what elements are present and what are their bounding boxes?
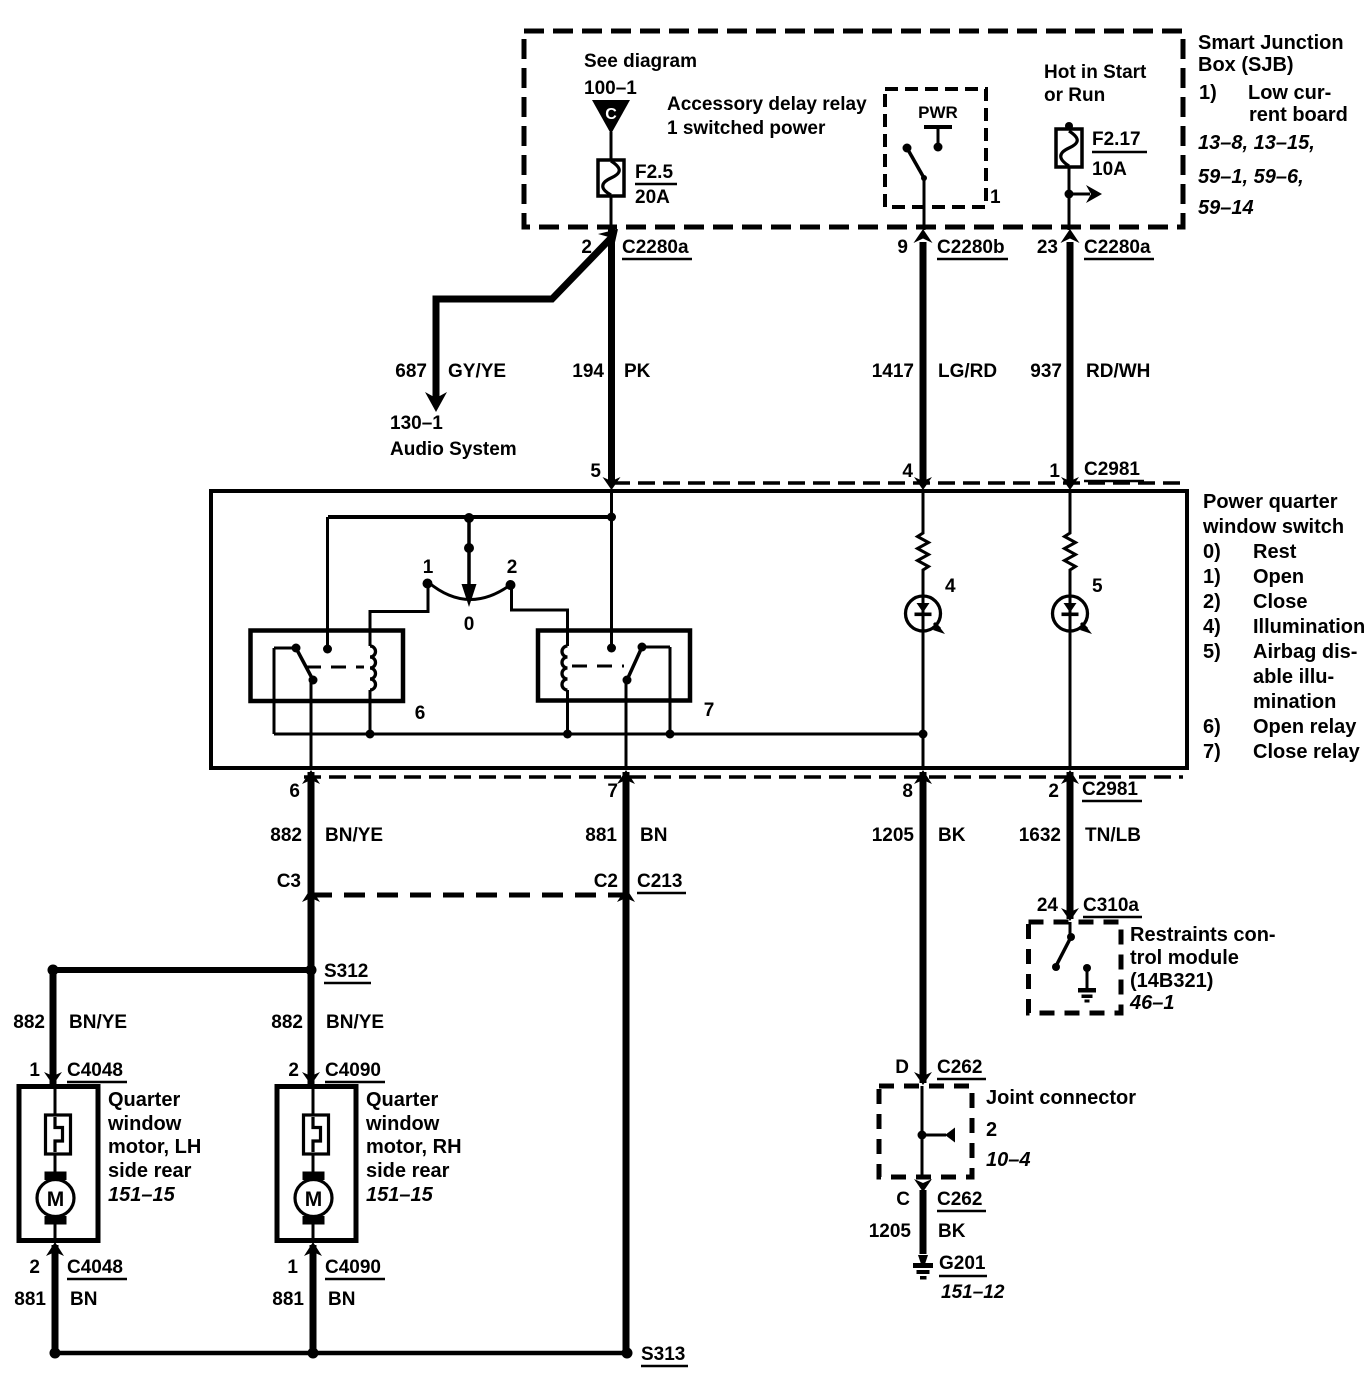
wire LED5 to pin 2 — [1069, 630, 1072, 768]
svg-text:BN/YE: BN/YE — [325, 825, 383, 846]
wire pin5 down inside box to relay 7 contact — [610, 491, 613, 648]
power quarter window switch box — [211, 491, 1187, 768]
svg-text:TN/LB: TN/LB — [1085, 825, 1141, 846]
relay 6 output to pin 6 — [310, 680, 313, 768]
relay 6 coil lead to bottom bus — [369, 690, 372, 734]
label 937 RD/WH — [1030, 361, 1150, 382]
SJB title text — [1198, 32, 1348, 219]
svg-text:Accessory delay relay: Accessory delay relay — [667, 94, 867, 115]
svg-text:1632: 1632 — [1019, 825, 1061, 846]
svg-text:Audio System: Audio System — [390, 439, 517, 460]
pin 2 C4090 entry — [288, 1060, 385, 1085]
svg-text:rent board: rent board — [1249, 104, 1348, 126]
relay 6 (open relay) box — [251, 631, 404, 702]
illumination resistor (4) — [918, 491, 929, 597]
svg-text:BK: BK — [938, 825, 966, 846]
svg-text:1: 1 — [423, 557, 434, 578]
rocker arc — [428, 582, 512, 600]
svg-text:46–1: 46–1 — [1129, 992, 1175, 1014]
svg-text:able illu-: able illu- — [1253, 666, 1334, 688]
svg-text:F2.17: F2.17 — [1092, 129, 1141, 150]
wire PWR to SJB border — [923, 178, 926, 230]
svg-text:Joint connector: Joint connector — [986, 1087, 1136, 1109]
label 1417 LG/RD — [872, 361, 997, 382]
svg-text:window switch: window switch — [1202, 516, 1344, 538]
svg-text:937: 937 — [1030, 361, 1062, 382]
svg-text:BN: BN — [328, 1289, 355, 1310]
svg-text:1: 1 — [287, 1257, 298, 1278]
svg-text:C2280a: C2280a — [622, 237, 689, 258]
svg-text:(14B321): (14B321) — [1130, 970, 1213, 992]
pin 1 C4090 exit — [287, 1242, 385, 1279]
relay 7 contact terminal — [607, 644, 616, 653]
svg-text:130–1: 130–1 — [390, 413, 443, 434]
svg-text:Close relay: Close relay — [1253, 741, 1361, 763]
svg-text:0): 0) — [1203, 541, 1221, 563]
svg-text:20A: 20A — [635, 187, 670, 208]
pin 9 C2280b connector label — [897, 229, 1008, 259]
svg-text:10A: 10A — [1092, 159, 1127, 180]
relay 6 pivot lead down — [273, 648, 276, 734]
RH motor internal wire bottom — [312, 1223, 315, 1241]
svg-text:C213: C213 — [637, 871, 682, 892]
ground G201 — [913, 1253, 1005, 1303]
LH circuit breaker — [46, 1115, 71, 1154]
svg-text:mination: mination — [1253, 691, 1336, 713]
joint connector internal bus — [918, 1086, 956, 1177]
svg-text:881: 881 — [585, 825, 617, 846]
relay 7 armature — [627, 647, 642, 680]
svg-text:5): 5) — [1203, 641, 1221, 663]
svg-text:C: C — [896, 1189, 910, 1210]
internal bottom bus wire — [274, 733, 923, 736]
svg-text:881: 881 — [272, 1289, 304, 1310]
svg-text:194: 194 — [572, 361, 604, 382]
pin 24 C310a entry — [1037, 895, 1142, 921]
svg-text:7: 7 — [704, 700, 715, 721]
wire 881 BN RH down — [310, 1245, 317, 1353]
wire 882 BN/YE left branch — [50, 970, 57, 1085]
svg-text:1: 1 — [990, 187, 1001, 208]
relay 6 common pivot and stub — [274, 647, 296, 650]
Smart Junction Box (SJB) dashed enclosure — [524, 31, 1183, 227]
label 194 PK — [572, 361, 650, 382]
pin 1 C2981 entry arrow — [1049, 459, 1144, 490]
svg-text:1205: 1205 — [872, 825, 915, 846]
svg-text:882: 882 — [270, 825, 302, 846]
svg-text:G201: G201 — [939, 1253, 986, 1274]
pin 2 C2280a connector label — [581, 229, 692, 259]
svg-text:C310a: C310a — [1083, 895, 1139, 916]
svg-text:or Run: or Run — [1044, 85, 1105, 106]
svg-text:Rest: Rest — [1253, 541, 1297, 563]
svg-text:882: 882 — [271, 1012, 303, 1033]
svg-text:S312: S312 — [324, 961, 368, 982]
wire 194 PK vertical (SJB to switch pin 5) — [608, 228, 615, 482]
svg-text:C4048: C4048 — [67, 1257, 123, 1278]
svg-text:4: 4 — [902, 461, 913, 482]
PWR switch dashed box — [885, 89, 986, 207]
svg-text:4: 4 — [945, 576, 956, 597]
svg-text:1): 1) — [1199, 82, 1217, 104]
wire 1205 BK (pin 8 down) — [920, 772, 927, 1083]
svg-text:59–1, 59–6,: 59–1, 59–6, — [1198, 166, 1304, 188]
LH motor internal wire middle — [54, 1153, 57, 1174]
quarter window motor LH box — [19, 1087, 98, 1241]
svg-text:F2.5: F2.5 — [635, 162, 673, 183]
svg-text:24: 24 — [1037, 895, 1059, 916]
LH motor internal wire bottom — [54, 1223, 57, 1241]
svg-text:C2981: C2981 — [1082, 779, 1138, 800]
relay 7 (close relay) box — [538, 631, 690, 701]
rocker wiper arrow — [462, 517, 477, 607]
svg-text:C2981: C2981 — [1084, 459, 1140, 480]
svg-text:M: M — [305, 1188, 323, 1211]
pin C C262 exit — [896, 1179, 986, 1211]
svg-text:BN/YE: BN/YE — [69, 1012, 127, 1033]
LH motor caption — [107, 1089, 201, 1206]
label 130-1 Audio System — [390, 413, 517, 460]
svg-text:5: 5 — [590, 461, 601, 482]
svg-text:4): 4) — [1203, 616, 1221, 638]
relay 7 coil lead to bottom bus — [566, 690, 569, 734]
svg-text:1): 1) — [1203, 566, 1221, 588]
connector C3 arrow — [277, 871, 320, 902]
accessory delay relay note — [667, 94, 867, 139]
LH motor internal wire top — [54, 1086, 57, 1116]
splice S313 bottom bus — [50, 1344, 689, 1366]
LED 5 airbag disable illumination — [1053, 596, 1093, 634]
svg-text:1417: 1417 — [872, 361, 914, 382]
position labels 1 2 0 — [423, 557, 518, 635]
svg-text:BN/YE: BN/YE — [326, 1012, 384, 1033]
svg-text:100–1: 100–1 — [584, 78, 637, 99]
relay 6 actuation dashes — [306, 666, 364, 669]
label 687 GY/YE — [395, 361, 506, 382]
svg-text:2: 2 — [986, 1119, 997, 1141]
svg-text:1 switched power: 1 switched power — [667, 118, 826, 139]
svg-text:Box (SJB): Box (SJB) — [1198, 54, 1294, 76]
pin 23 C2280a connector label — [1037, 229, 1154, 259]
svg-text:8: 8 — [902, 781, 913, 802]
RH motor internal wire top — [312, 1086, 315, 1116]
svg-text:S313: S313 — [641, 1344, 685, 1365]
pin 5 entry arrow — [590, 461, 620, 490]
svg-text:2: 2 — [288, 1060, 299, 1081]
svg-text:side rear: side rear — [366, 1160, 450, 1182]
svg-text:BN: BN — [70, 1289, 97, 1310]
wire 687 GY/YE branch to audio system — [436, 238, 611, 399]
svg-text:59–14: 59–14 — [1198, 197, 1254, 219]
svg-text:Illumination: Illumination — [1253, 616, 1365, 638]
svg-text:2: 2 — [507, 557, 518, 578]
svg-text:C2280b: C2280b — [937, 237, 1005, 258]
svg-text:motor, LH: motor, LH — [108, 1136, 201, 1158]
node C feed triangle — [592, 100, 630, 134]
RH motor caption — [365, 1089, 462, 1206]
svg-text:PK: PK — [624, 361, 651, 382]
wire 1417 LG/RD vertical — [920, 242, 927, 482]
relay 6 contact terminal from top bus — [326, 517, 329, 649]
connector C2981 dashed boundary (top) — [613, 481, 1183, 485]
contact 1 — [423, 579, 433, 589]
svg-text:151–15: 151–15 — [366, 1184, 434, 1206]
svg-text:window: window — [107, 1113, 182, 1135]
pin 1 C4048 entry — [29, 1060, 127, 1085]
svg-text:C262: C262 — [937, 1057, 982, 1078]
pin 2 C2981 exit arrow — [1048, 770, 1142, 802]
svg-text:Open relay: Open relay — [1253, 716, 1357, 738]
restraints module caption — [1129, 924, 1276, 1014]
svg-text:151–12: 151–12 — [941, 1282, 1005, 1303]
wire 1205 BK to ground — [920, 1190, 927, 1254]
svg-text:C262: C262 — [937, 1189, 982, 1210]
pin D C262 entry — [895, 1057, 986, 1085]
wire triangle to fuse F2.5 — [610, 132, 613, 161]
connector C2981 dashed boundary (bottom) — [304, 775, 1183, 779]
svg-text:7: 7 — [607, 781, 618, 802]
svg-text:2: 2 — [29, 1257, 40, 1278]
restraints module internal switch — [1052, 922, 1075, 971]
in-line connector C213 dashed line — [311, 893, 626, 898]
splice S312 — [48, 961, 372, 983]
svg-text:Restraints con-: Restraints con- — [1130, 924, 1276, 946]
svg-text:1205: 1205 — [869, 1221, 912, 1242]
svg-text:Quarter: Quarter — [108, 1089, 180, 1111]
airbag resistor (5) — [1065, 491, 1076, 597]
joint connector 2 dashed box — [879, 1086, 972, 1177]
svg-text:LG/RD: LG/RD — [938, 361, 997, 382]
relay 7 coil — [562, 646, 568, 690]
relay 7 output to pin 7 — [625, 680, 628, 768]
wire 881 BN (pin 7 down to S313) — [623, 772, 630, 1353]
svg-text:Close: Close — [1253, 591, 1307, 613]
svg-text:Open: Open — [1253, 566, 1304, 588]
PWR switch symbol — [903, 103, 958, 181]
svg-text:C2: C2 — [594, 871, 618, 892]
relay 6 coil — [370, 646, 376, 690]
wire contact1 to relay6 coil — [370, 582, 428, 646]
internal top bus wire — [328, 515, 612, 519]
svg-text:motor, RH: motor, RH — [366, 1136, 462, 1158]
svg-text:2: 2 — [1048, 781, 1059, 802]
svg-text:6: 6 — [415, 703, 426, 724]
RH circuit breaker — [304, 1115, 329, 1154]
svg-text:side rear: side rear — [108, 1160, 192, 1182]
label 882 BN/YE right branch — [271, 1012, 384, 1033]
svg-text:C: C — [605, 106, 617, 123]
fuse F2.5 20A — [598, 160, 677, 208]
pin 2 C4048 exit — [29, 1242, 127, 1279]
svg-text:M: M — [47, 1188, 65, 1211]
svg-text:Hot in Start: Hot in Start — [1044, 62, 1147, 83]
wire contact2 to relay7 coil — [512, 584, 568, 646]
svg-text:Low cur-: Low cur- — [1248, 82, 1331, 104]
svg-text:1: 1 — [29, 1060, 40, 1081]
svg-text:trol module: trol module — [1130, 947, 1239, 969]
svg-text:C2280a: C2280a — [1084, 237, 1151, 258]
restraints module internal ground — [1078, 964, 1096, 1003]
svg-text:6: 6 — [289, 781, 300, 802]
svg-text:6): 6) — [1203, 716, 1221, 738]
svg-text:882: 882 — [13, 1012, 45, 1033]
contact 2 — [506, 580, 516, 590]
svg-text:0: 0 — [464, 614, 475, 635]
svg-text:687: 687 — [395, 361, 427, 382]
svg-text:151–15: 151–15 — [108, 1184, 176, 1206]
svg-text:C4048: C4048 — [67, 1060, 123, 1081]
svg-text:10–4: 10–4 — [986, 1149, 1031, 1171]
wire 937 RD/WH vertical — [1067, 242, 1074, 482]
wire 1632 TN/LB (pin 2 down) — [1067, 772, 1074, 919]
svg-text:C4090: C4090 — [325, 1060, 381, 1081]
svg-text:RD/WH: RD/WH — [1086, 361, 1150, 382]
relay 7 actuation dashes — [572, 665, 624, 668]
svg-text:C3: C3 — [277, 871, 301, 892]
pin 7 exit arrow — [607, 770, 635, 802]
svg-text:Airbag dis-: Airbag dis- — [1253, 641, 1357, 663]
wire 882 BN/YE (pin 6 down) — [308, 772, 315, 1085]
svg-text:Quarter: Quarter — [366, 1089, 438, 1111]
svg-text:See diagram: See diagram — [584, 51, 697, 72]
pin 4 entry arrow — [902, 461, 932, 490]
svg-text:GY/YE: GY/YE — [448, 361, 506, 382]
quarter window motor RH box — [277, 1087, 356, 1241]
switch annotation text — [1202, 491, 1365, 763]
svg-text:13–8, 13–15,: 13–8, 13–15, — [1198, 132, 1315, 154]
svg-text:Power quarter: Power quarter — [1203, 491, 1338, 513]
restraints control module dashed box — [1029, 922, 1122, 1013]
wire F2.17 down to SJB border — [1068, 167, 1071, 230]
joint connector caption — [986, 1087, 1136, 1171]
svg-text:Smart Junction: Smart Junction — [1198, 32, 1344, 54]
motor M LH — [37, 1172, 74, 1225]
svg-text:23: 23 — [1037, 237, 1058, 258]
svg-text:C4090: C4090 — [325, 1257, 381, 1278]
svg-text:5: 5 — [1092, 576, 1103, 597]
svg-text:window: window — [365, 1113, 440, 1135]
svg-text:D: D — [895, 1057, 909, 1078]
pin 6 exit arrow — [289, 770, 320, 802]
wire 881 BN LH down — [52, 1245, 59, 1353]
svg-text:2): 2) — [1203, 591, 1221, 613]
Hot in Start or Run label — [1044, 62, 1147, 106]
fuse F2.17 10A — [1056, 122, 1147, 180]
motor M RH — [295, 1172, 332, 1225]
svg-text:PWR: PWR — [918, 103, 958, 122]
svg-text:881: 881 — [14, 1289, 46, 1310]
svg-text:7): 7) — [1203, 741, 1221, 763]
svg-text:9: 9 — [897, 237, 908, 258]
relay 7 common pivot and stub — [638, 643, 647, 652]
relay 6 armature — [296, 648, 313, 680]
wire LED4 to bottom bus and pin 8 — [922, 630, 925, 768]
connector C2 C213 arrow — [594, 871, 686, 902]
svg-text:BK: BK — [938, 1221, 966, 1242]
pin 8 exit arrow — [902, 770, 932, 802]
svg-text:1: 1 — [1049, 461, 1060, 482]
wire fuse F2.5 to SJB border — [610, 196, 613, 230]
svg-text:BN: BN — [640, 825, 667, 846]
See diagram 100-1 label — [584, 51, 697, 99]
junction on F2.17 wire with right branch arrow — [1065, 185, 1103, 203]
LED 4 illumination — [906, 596, 946, 634]
RH motor internal wire middle — [312, 1153, 315, 1174]
